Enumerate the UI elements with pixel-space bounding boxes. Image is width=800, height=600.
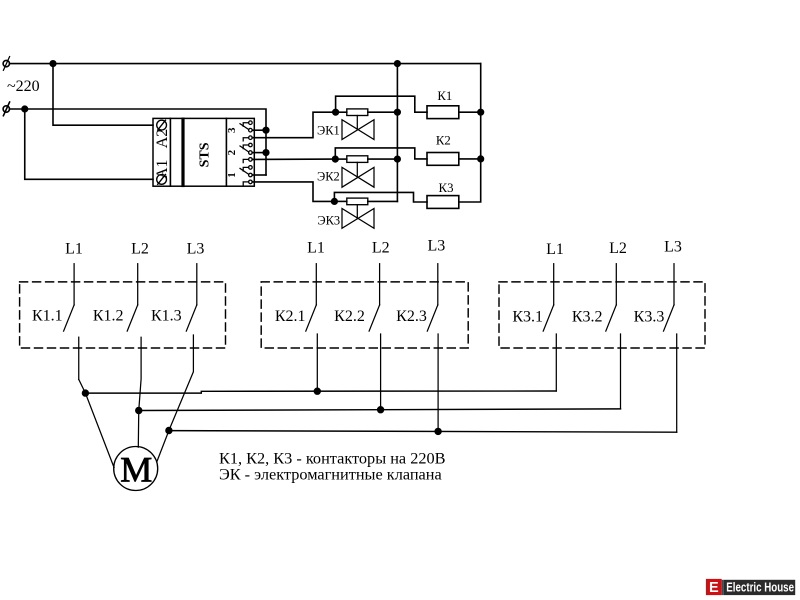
- contact K1.2: [127, 264, 141, 411]
- solenoid EK2 coil: [335, 156, 397, 163]
- svg-text:L3: L3: [664, 239, 682, 256]
- wire to A2 terminal: [53, 64, 153, 126]
- svg-text:L3: L3: [428, 238, 446, 255]
- vertical line1 branch x397: [396, 64, 398, 202]
- svg-text:К3: К3: [439, 181, 454, 195]
- junction dot top rail x397: [395, 61, 401, 67]
- svg-text:К2.2: К2.2: [334, 308, 365, 325]
- valve EK1: [342, 116, 374, 140]
- junction dot K2.3 bus3: [435, 429, 441, 435]
- wire K2 coil feed: [335, 148, 427, 159]
- svg-text:К3.2: К3.2: [572, 309, 603, 326]
- junction dot K2 right: [478, 156, 484, 162]
- contact K3.2: [606, 264, 621, 409]
- terminal X2 phase bottom: [3, 102, 10, 116]
- svg-text:ЭК2: ЭК2: [317, 169, 340, 183]
- STS contact group 3 pins: [240, 121, 252, 141]
- wire K3 coil feed: [334, 192, 427, 202]
- contactor coil K1: [427, 106, 459, 119]
- junction dot bus2 left: [136, 408, 142, 414]
- wire pin2 output to EK2 node: [252, 158, 335, 160]
- wire pin3 output to EK1 node: [252, 112, 335, 138]
- junction dot K2.1 bus1: [314, 388, 320, 394]
- svg-text:L2: L2: [372, 240, 390, 257]
- svg-text:L1: L1: [546, 241, 564, 258]
- junction dot bottom line / A1 branch: [22, 106, 28, 112]
- svg-text:Electric House: Electric House: [726, 581, 794, 595]
- contact K3.3: [664, 264, 677, 433]
- wire motor phase3: [157, 431, 169, 462]
- svg-text:ЭК3: ЭК3: [317, 213, 340, 227]
- svg-text:L2: L2: [609, 240, 627, 257]
- STS time relay module U1: [153, 118, 254, 188]
- dashed box contact group K3: [499, 282, 705, 348]
- svg-text:К2.1: К2.1: [275, 308, 306, 325]
- contact K2.1: [306, 264, 318, 392]
- STS terminal circle A1: [157, 175, 167, 185]
- svg-text:A2: A2: [154, 129, 171, 149]
- svg-text:~220: ~220: [7, 78, 40, 95]
- wire bus phase 2: [139, 409, 621, 411]
- contact K2.2: [369, 264, 381, 410]
- svg-text:2: 2: [226, 149, 238, 155]
- wire to A1 terminal: [25, 109, 153, 179]
- svg-text:К2.3: К2.3: [396, 308, 427, 325]
- wire K1.1 slant to bus1 dot: [79, 379, 86, 393]
- svg-text:К1.3: К1.3: [151, 307, 182, 324]
- junction dot EK3 left: [332, 199, 338, 205]
- vertical line1 right branch x481: [459, 64, 481, 202]
- contact K1.1: [64, 264, 79, 380]
- svg-text:К3.1: К3.1: [512, 309, 543, 326]
- wire pin3 common stub: [252, 129, 266, 131]
- wire motor phase1: [85, 393, 114, 468]
- wire motor phase2: [137, 411, 139, 448]
- solenoid EK3 coil: [334, 198, 397, 205]
- svg-text:К3.3: К3.3: [634, 309, 665, 326]
- valve EK3: [342, 205, 374, 229]
- svg-text:L2: L2: [131, 241, 149, 258]
- junction dot commons 2: [263, 150, 269, 156]
- terminal X1 phase top: [3, 57, 10, 71]
- wire K2 right: [459, 158, 481, 160]
- svg-text:ЭК1: ЭК1: [317, 123, 340, 137]
- svg-text:К1.1: К1.1: [32, 307, 63, 324]
- valve EK2: [342, 162, 374, 187]
- STS contact group 1 pins: [240, 166, 252, 186]
- wire bus phase 1: [85, 391, 556, 393]
- svg-text:E: E: [709, 580, 719, 596]
- contact K2.3: [427, 264, 438, 432]
- contactor coil K2: [427, 153, 459, 166]
- STS terminal circle A2: [157, 120, 167, 130]
- junction dot EK2 left: [333, 156, 339, 162]
- wire pin1 common stub: [252, 174, 266, 176]
- junction dot bus3 left: [166, 428, 172, 434]
- motor M1: [114, 447, 158, 491]
- wire pin1 output to EK3 node: [252, 182, 334, 202]
- dashed box contact group K1: [20, 282, 226, 348]
- svg-text:L3: L3: [187, 241, 205, 258]
- wire top 220 rail: [10, 63, 481, 65]
- svg-text:L1: L1: [65, 241, 83, 258]
- contact K3.1: [543, 264, 556, 391]
- svg-text:ЭК - электромагнитные клапана: ЭК - электромагнитные клапана: [219, 465, 442, 484]
- junction dot commons 3: [263, 127, 269, 133]
- wire K1 coil feed: [336, 96, 427, 112]
- svg-text:STS: STS: [198, 142, 213, 167]
- contact K1.3: [169, 264, 197, 431]
- svg-text:L1: L1: [307, 240, 325, 257]
- svg-text:К2: К2: [436, 134, 451, 148]
- junction dot EK2 right: [395, 156, 401, 162]
- logo Electric House: [706, 579, 795, 596]
- junction dot K2.2 bus2: [378, 407, 384, 413]
- junction dot EK1 right: [395, 109, 401, 115]
- svg-text:3: 3: [226, 127, 238, 133]
- svg-text:M: M: [120, 450, 152, 490]
- svg-text:1: 1: [226, 172, 238, 178]
- svg-text:К1: К1: [437, 89, 452, 103]
- dashed box contact group K2: [261, 282, 468, 348]
- wire bottom 220 line to STS commons: [10, 109, 266, 175]
- svg-text:A1: A1: [154, 160, 171, 180]
- wire pin2 common stub: [252, 152, 266, 154]
- wire K1 right: [459, 111, 481, 113]
- junction dot K1 right: [478, 109, 484, 115]
- junction dot bus1 left: [83, 390, 89, 396]
- junction dot top rail / A2 branch: [50, 61, 56, 67]
- svg-text:К1.2: К1.2: [93, 307, 124, 324]
- contactor coil K3: [427, 196, 459, 209]
- solenoid EK1 coil: [336, 109, 398, 116]
- wire bus phase 3: [169, 431, 677, 433]
- STS contact group 2 pins: [240, 143, 252, 162]
- junction dot EK1 left: [333, 109, 339, 115]
